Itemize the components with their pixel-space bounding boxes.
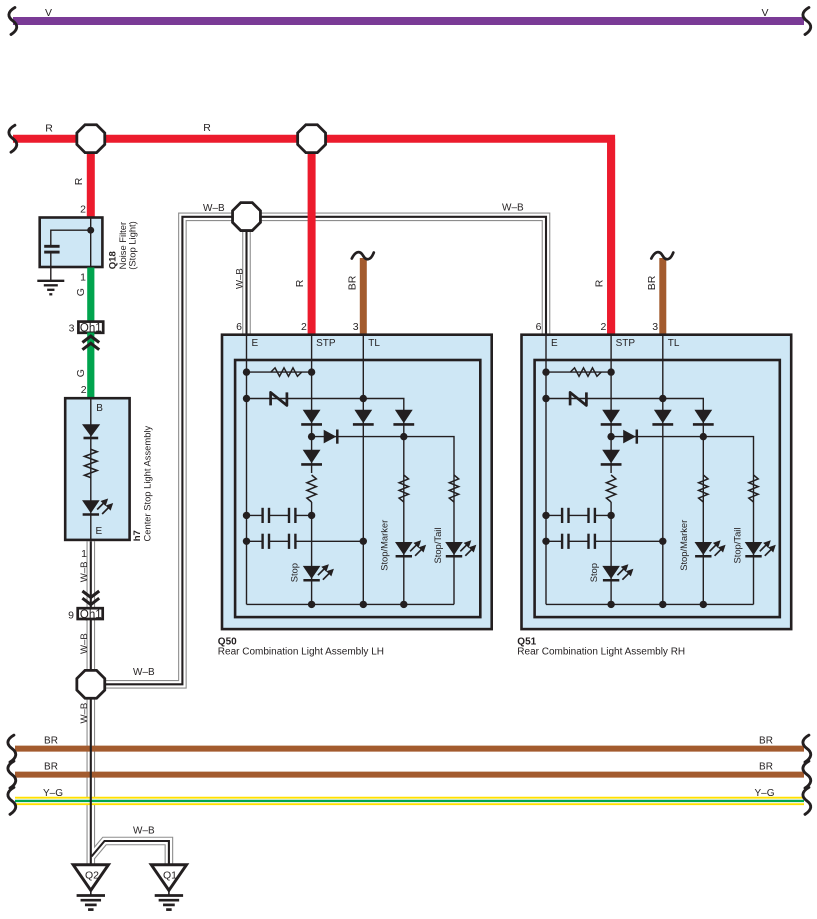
shield chevrons above Qh1 lower bbox=[82, 591, 99, 597]
BR stub break squiggle bbox=[352, 252, 374, 259]
wire G: Q18 pin 1 to connector Qh1 bbox=[87, 268, 94, 322]
wire BR bus 2 bbox=[15, 772, 804, 778]
resistor in h7 bbox=[85, 449, 98, 477]
svg-text:Stop/Tail: Stop/Tail bbox=[731, 528, 742, 564]
svg-text:STP: STP bbox=[316, 338, 336, 349]
N symbol (noise suppressor) bbox=[570, 392, 586, 405]
diode on TL rail bbox=[354, 410, 372, 423]
second diode on STP rail bbox=[303, 450, 321, 463]
ground below Q18 bbox=[37, 280, 64, 282]
bottom rail junctions bbox=[308, 601, 315, 608]
capacitor 1a bbox=[261, 508, 263, 523]
svg-text:G: G bbox=[75, 288, 87, 296]
break V right bbox=[803, 8, 811, 35]
ground Q2 stem bbox=[90, 890, 92, 895]
rear combination light assembly Q50 (LH) bbox=[218, 139, 492, 658]
LED Stop bbox=[303, 566, 321, 579]
break BR2 right bbox=[803, 761, 811, 788]
N-symbol row wire bbox=[546, 399, 703, 411]
internal resistor (top) bbox=[271, 368, 302, 376]
capacitor in Q18 bbox=[44, 245, 59, 248]
svg-text:G: G bbox=[75, 369, 87, 377]
resistor on STP rail bbox=[606, 475, 615, 502]
wire W-B: bottom octagon down to ground Q2 [stripe] bbox=[90, 684, 92, 864]
svg-text:Rear Combination Light Assembl: Rear Combination Light Assembly LH bbox=[218, 647, 384, 658]
LED Stop/Marker bbox=[695, 542, 713, 555]
wire W-B branch: to ground Q1 [stripe] bbox=[92, 841, 169, 864]
svg-text:Center Stop Light Assembly: Center Stop Light Assembly bbox=[142, 426, 153, 542]
resistor on marker branch bbox=[399, 475, 408, 502]
svg-text:Stop/Marker: Stop/Marker bbox=[678, 520, 689, 571]
wire G: Qh1 to center stop light pin 2 bbox=[87, 333, 94, 400]
diode pointing right bbox=[623, 430, 636, 444]
svg-text:Y–G: Y–G bbox=[43, 788, 63, 799]
wire W-B: bottom octagon down to ground Q2 [body] bbox=[88, 684, 94, 864]
LED in h7 bbox=[82, 500, 100, 513]
diode on STP rail bbox=[303, 410, 321, 423]
svg-text:3: 3 bbox=[69, 323, 75, 335]
wire W-B shield run: bottom octagon to right riser to top run to Q51 pin 6 [body] bbox=[91, 217, 546, 685]
Q18 internal lead bbox=[90, 218, 92, 268]
junction octagon on red bus left bbox=[77, 125, 105, 153]
break R left bbox=[9, 125, 17, 152]
diode on marker branch bbox=[694, 410, 712, 423]
capacitor row 1 junctions bbox=[542, 512, 549, 519]
svg-text:R: R bbox=[294, 279, 306, 287]
svg-text:BR: BR bbox=[44, 762, 58, 773]
svg-text:Stop/Marker: Stop/Marker bbox=[379, 520, 390, 571]
svg-text:Q2: Q2 bbox=[85, 870, 99, 882]
svg-text:TL: TL bbox=[368, 338, 380, 349]
break BR1 right bbox=[803, 735, 811, 762]
noise filter Q18 box bbox=[40, 218, 103, 268]
wire W-B: connector Qh1 down to bottom octagon [body] bbox=[88, 619, 94, 684]
connector Qh1 pin 3 box bbox=[78, 322, 103, 333]
resistor row junctions bbox=[243, 368, 250, 375]
svg-text:W–B: W–B bbox=[79, 633, 90, 654]
svg-text:2: 2 bbox=[80, 203, 86, 215]
svg-text:BR: BR bbox=[646, 275, 658, 290]
N-symbol row wire bbox=[247, 399, 404, 411]
capacitor row 2 junctions bbox=[542, 538, 549, 545]
internal resistor (top) bbox=[570, 368, 601, 376]
STP rail upper bbox=[610, 335, 612, 473]
N row junctions bbox=[243, 395, 250, 402]
diode on marker branch bbox=[395, 410, 413, 423]
svg-text:Qh1: Qh1 bbox=[80, 609, 102, 621]
diode on STP rail bbox=[602, 410, 620, 423]
wire W-B: bottom octagon down to ground Q2 [outline] bbox=[87, 684, 96, 864]
svg-text:Rear Combination Light Assembl: Rear Combination Light Assembly RH bbox=[517, 647, 685, 658]
marker branch wire bbox=[702, 410, 704, 604]
junction octagon on red bus middle bbox=[298, 125, 326, 153]
break V left bbox=[9, 8, 17, 35]
capacitor row 2 wire bbox=[247, 540, 263, 542]
wire Y-G bus (yellow) bbox=[15, 797, 804, 805]
wire W-B: center stop light pin 1 down to connector Qh1 [stripe] bbox=[90, 541, 92, 608]
Q51 inner box bbox=[535, 360, 780, 617]
LED Stop/Tail bbox=[445, 542, 463, 555]
connector Qh1 pin 9 box bbox=[78, 608, 103, 619]
LED Stop/Tail bbox=[745, 542, 763, 555]
TL rail bbox=[662, 335, 664, 605]
svg-text:V: V bbox=[45, 7, 52, 19]
resistor row wire bbox=[247, 371, 312, 373]
svg-text:2: 2 bbox=[81, 384, 87, 396]
STP rail lower bbox=[311, 502, 313, 604]
junction octagon on W-B bottom run bbox=[77, 670, 105, 698]
svg-text:(Stop Light): (Stop Light) bbox=[126, 221, 137, 269]
break BR1 left bbox=[8, 735, 16, 762]
wire V (violet bus) bbox=[13, 17, 804, 25]
svg-text:R: R bbox=[45, 122, 53, 134]
wire R into Q50 STP bbox=[308, 139, 316, 335]
capacitor 2a bbox=[261, 534, 263, 549]
LED Stop/Marker bbox=[395, 542, 413, 555]
bottom rail bbox=[546, 603, 754, 605]
tail branch wire bbox=[753, 475, 755, 604]
svg-text:E: E bbox=[96, 526, 103, 537]
second diode on STP rail bbox=[602, 450, 620, 463]
svg-text:B: B bbox=[96, 403, 103, 414]
svg-text:1: 1 bbox=[80, 271, 86, 283]
diode in h7 bbox=[82, 424, 100, 436]
coupling row junctions bbox=[607, 433, 614, 440]
wire R: left octagon down to Q18 pin 2 bbox=[87, 139, 95, 218]
svg-text:W–B: W–B bbox=[235, 268, 246, 289]
wire W-B: connector Qh1 down to bottom octagon [outline] bbox=[87, 619, 96, 684]
wire Y-G bus (green stripe) bbox=[15, 800, 804, 802]
capacitor 1b bbox=[587, 508, 589, 523]
svg-text:Y–G: Y–G bbox=[754, 788, 774, 799]
diode pointing right bbox=[324, 430, 337, 444]
capacitor row 1 junctions bbox=[243, 512, 250, 519]
wire W-B tap: top octagon down to Q50 pin 6 [stripe] bbox=[245, 212, 247, 335]
svg-text:W–B: W–B bbox=[79, 703, 90, 724]
resistor on tail branch bbox=[749, 475, 758, 502]
svg-text:6: 6 bbox=[536, 321, 542, 333]
N symbol (noise suppressor) bbox=[271, 392, 287, 405]
wire W-B: center stop light pin 1 down to connector Qh1 [outline] bbox=[87, 541, 96, 608]
wire W-B: connector Qh1 down to bottom octagon [stripe] bbox=[90, 619, 92, 684]
capacitor row 2 wire bbox=[546, 540, 562, 542]
shield chevrons below Qh1 bbox=[82, 336, 99, 342]
TL rail bbox=[362, 335, 364, 605]
junction octagon on W-B top run bbox=[233, 203, 261, 231]
svg-text:W–B: W–B bbox=[133, 667, 155, 678]
wire W-B shield run: bottom octagon to right riser to top run to Q51 pin 6 [stripe] bbox=[91, 217, 546, 685]
svg-text:STP: STP bbox=[616, 338, 636, 349]
ground Q2 triangle bbox=[73, 865, 108, 891]
wire BR stub into Q50 TL bbox=[360, 258, 367, 335]
svg-text:R: R bbox=[73, 177, 85, 185]
svg-text:R: R bbox=[594, 279, 606, 287]
E rail bbox=[246, 335, 248, 605]
svg-text:W–B: W–B bbox=[133, 826, 155, 837]
diode on TL rail bbox=[654, 410, 672, 423]
capacitor 2b bbox=[587, 534, 589, 549]
svg-text:BR: BR bbox=[347, 275, 359, 290]
svg-text:3: 3 bbox=[353, 321, 359, 333]
svg-text:BR: BR bbox=[759, 762, 773, 773]
svg-text:V: V bbox=[761, 7, 768, 19]
svg-text:6: 6 bbox=[236, 321, 242, 333]
LED Stop bbox=[602, 566, 620, 579]
ground Q1 stem bbox=[168, 890, 170, 895]
svg-text:3: 3 bbox=[652, 321, 658, 333]
Q51 outer box bbox=[522, 335, 792, 629]
break Y-G right bbox=[803, 787, 811, 814]
svg-text:W–B: W–B bbox=[203, 203, 225, 214]
resistor row wire bbox=[546, 371, 611, 373]
svg-text:2: 2 bbox=[601, 321, 607, 333]
wire W-B branch: to ground Q1 [body] bbox=[92, 841, 169, 864]
svg-text:BR: BR bbox=[44, 736, 58, 747]
ground Q2 symbol bbox=[77, 894, 105, 897]
wire BR bus 1 bbox=[15, 746, 804, 752]
wire W-B shield run: bottom octagon to right riser to top run to Q51 pin 6 [outline] bbox=[91, 217, 546, 685]
svg-text:BR: BR bbox=[759, 736, 773, 747]
resistor row junctions bbox=[542, 368, 549, 375]
capacitor row 1 wire bbox=[546, 514, 562, 516]
capacitor row 1 wire bbox=[247, 514, 263, 516]
svg-text:Stop: Stop bbox=[588, 563, 599, 582]
resistor on marker branch bbox=[699, 475, 708, 502]
wire R into Q51 STP bbox=[607, 139, 615, 335]
capacitor 1a bbox=[561, 508, 563, 523]
svg-text:E: E bbox=[551, 338, 558, 349]
bottom rail bbox=[247, 603, 455, 605]
wire W-B: center stop light pin 1 down to connector Qh1 [body] bbox=[88, 541, 94, 608]
resistor on STP rail bbox=[307, 475, 316, 502]
capacitor row 2 junctions bbox=[243, 538, 250, 545]
rear combination light assembly Q51 (RH) bbox=[517, 139, 791, 658]
svg-text:Stop: Stop bbox=[288, 563, 299, 582]
coupling row wire bbox=[312, 437, 454, 475]
coupling row junctions bbox=[308, 433, 315, 440]
marker branch wire bbox=[403, 410, 405, 604]
svg-text:1: 1 bbox=[81, 548, 87, 560]
Q18 internal wire to capacitor bbox=[51, 230, 91, 245]
Q50 outer box bbox=[222, 335, 492, 629]
capacitor 2b bbox=[288, 534, 290, 549]
svg-text:E: E bbox=[252, 338, 259, 349]
Q50 inner box bbox=[235, 360, 480, 617]
resistor on tail branch bbox=[449, 475, 458, 502]
STP rail lower bbox=[610, 502, 612, 604]
wire R (red bus turning down to Q51 STP) bbox=[13, 139, 611, 335]
svg-text:9: 9 bbox=[68, 609, 74, 621]
ground Q1 symbol bbox=[155, 894, 183, 897]
svg-text:W–B: W–B bbox=[79, 562, 90, 583]
wire BR stub into Q51 TL bbox=[659, 258, 666, 335]
wire Y-G bus (white gaps) bbox=[15, 799, 804, 804]
svg-text:Stop/Tail: Stop/Tail bbox=[432, 528, 443, 564]
STP rail upper bbox=[311, 335, 313, 473]
svg-text:2: 2 bbox=[301, 321, 307, 333]
wire W-B tap: top octagon down to Q50 pin 6 [outline] bbox=[242, 212, 251, 335]
Q18 internal junction bbox=[87, 227, 94, 234]
N row junctions bbox=[542, 395, 549, 402]
break Y-G left bbox=[8, 787, 16, 814]
coupling row wire bbox=[611, 437, 753, 475]
capacitor 2a bbox=[561, 534, 563, 549]
h7 internal lead bbox=[90, 398, 92, 540]
capacitor 1b bbox=[288, 508, 290, 523]
ground Q1 triangle bbox=[151, 865, 186, 891]
tail branch wire bbox=[453, 475, 455, 604]
break BR2 left bbox=[8, 761, 16, 788]
bottom rail junctions bbox=[607, 601, 614, 608]
center stop light assembly h7 box bbox=[65, 398, 129, 540]
E rail bbox=[545, 335, 547, 605]
svg-text:W–B: W–B bbox=[502, 203, 524, 214]
svg-text:Q1: Q1 bbox=[163, 870, 177, 882]
wire W-B branch: to ground Q1 [outline] bbox=[92, 841, 169, 864]
Q18 capacitor lead to ground bbox=[50, 252, 52, 280]
svg-text:TL: TL bbox=[668, 338, 680, 349]
BR stub break squiggle bbox=[651, 252, 673, 259]
svg-text:R: R bbox=[203, 122, 211, 134]
wire W-B tap: top octagon down to Q50 pin 6 [body] bbox=[243, 212, 249, 335]
